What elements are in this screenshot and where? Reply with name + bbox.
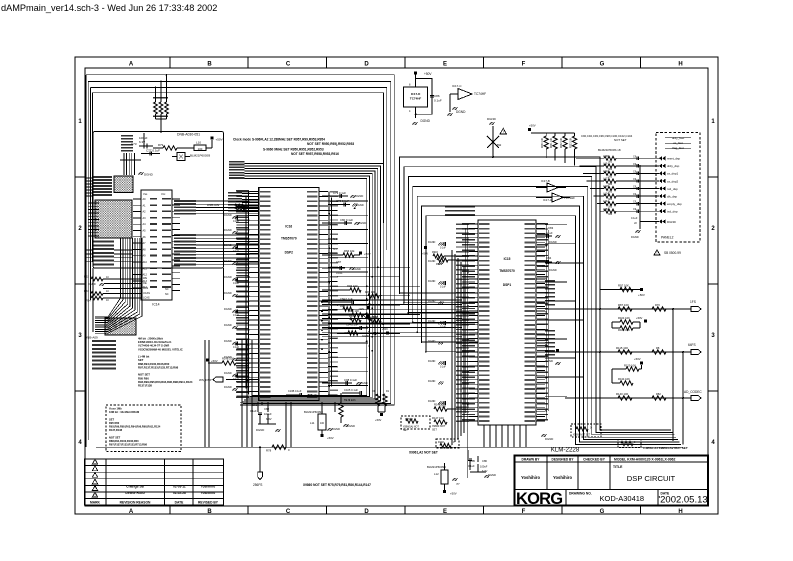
label KLM-222B (551, 447, 580, 454)
svg-text:0: 0 (288, 448, 290, 452)
svg-text:R66 10k: R66 10k (344, 249, 355, 253)
svg-text:L11: L11 (310, 421, 315, 425)
svg-text:C9: C9 (633, 201, 637, 204)
svg-text:DGND: DGND (224, 213, 232, 217)
svg-text:DGND: DGND (456, 110, 466, 114)
svg-text:!: ! (503, 130, 504, 134)
wire 256FS with R78 (96, 445, 683, 487)
svg-text:DGND: DGND (144, 173, 154, 177)
svg-text:DGND: DGND (347, 424, 355, 428)
svg-text:DGND: DGND (224, 339, 232, 343)
DSP1 IC15 TMS57070 (456, 220, 549, 478)
svg-text:C84,0.1uF: C84,0.1uF (346, 323, 359, 327)
svg-text:0.1uF: 0.1uF (542, 264, 549, 268)
svg-text:+50V: +50V (211, 359, 218, 363)
svg-text:A2: A2 (143, 211, 147, 214)
bus IC14 to lower nets (95, 238, 142, 333)
svg-text:1: 1 (711, 119, 715, 125)
svg-text:DGND: DGND (428, 241, 436, 244)
svg-text:X9860 NOT SET R75,R79,R81,R: X9860 NOT SET R75,R79,R81,R86,R144,R147 (303, 483, 371, 487)
note X9961A2 (409, 451, 438, 455)
svg-text:NC: NC (165, 288, 169, 291)
vertical feedback wires right area (600, 290, 683, 445)
svg-text:100: 100 (198, 147, 203, 151)
svg-text:4M bit : 256Kx16bit: 4M bit : 256Kx16bit (138, 337, 163, 341)
svg-text:DRAWING NO.: DRAWING NO. (569, 492, 592, 496)
svg-text:DSP CIRCUIT: DSP CIRCUIT (627, 474, 676, 483)
svg-text:R87 100: R87 100 (618, 303, 629, 307)
svg-text:+50V: +50V (422, 252, 428, 256)
svg-text:3: 3 (711, 333, 715, 339)
svg-text:A3: A3 (143, 217, 147, 220)
svg-text:C77 0.1uF: C77 0.1uF (146, 149, 160, 153)
svg-text:R62: R62 (84, 275, 89, 279)
svg-text:C9: C9 (633, 186, 637, 189)
svg-text:Clock mode S-996FLA2 12.288MH: Clock mode S-996FLA2 12.288MHz SET R957,… (233, 138, 325, 142)
svg-text:NOT SET R950,R95(,R952,R953: NOT SET R950,R95(,R952,R953 (307, 142, 354, 146)
svg-text:H: H (678, 509, 682, 515)
svg-text:+50V: +50V (450, 492, 457, 496)
svg-text:2: 2 (711, 226, 715, 232)
svg-text:R79: R79 (158, 143, 164, 147)
svg-text:DGND: DGND (310, 394, 318, 397)
svg-text:DESIGNED BY: DESIGNED BY (552, 457, 575, 461)
svg-text:DGND: DGND (428, 260, 436, 263)
svg-text:C9: C9 (633, 170, 637, 173)
svg-text:R1: R1 (386, 390, 390, 393)
svg-text:reset_dsp: reset_dsp (667, 157, 681, 161)
svg-text:DGND: DGND (421, 119, 431, 123)
svg-text:TMS57070: TMS57070 (499, 269, 515, 273)
svg-text:R232 10K: R232 10K (561, 137, 563, 148)
svg-text:WE: WE (143, 277, 147, 280)
svg-text:100: 100 (320, 422, 325, 425)
svg-text:R8: R8 (656, 346, 660, 350)
svg-text:BLM21P600S9: BLM21P600S9 (427, 465, 446, 469)
svg-text:DNB-A030-051: DNB-A030-051 (177, 133, 200, 137)
decoupling caps and grounds left of DSP2 (224, 213, 240, 391)
svg-text:0.1uF: 0.1uF (440, 248, 446, 250)
svg-text:R140 100: R140 100 (616, 392, 629, 396)
DSP2 right pin wires (328, 196, 337, 395)
svg-text:A: A (129, 61, 134, 67)
svg-text:DGND: DGND (428, 300, 436, 303)
svg-text:A0: A0 (143, 198, 147, 201)
DSP1 bottom wires and optional resistor (484, 424, 601, 447)
svg-text:TC74HF: TC74HF (564, 196, 575, 200)
svg-text:L12: L12 (434, 472, 439, 476)
svg-text:DGND: DGND (224, 307, 232, 311)
svg-text:DGND: DGND (549, 240, 557, 244)
svg-text:DGND: DGND (224, 323, 232, 327)
svg-text:R148 10K: R148 10K (222, 357, 234, 361)
svg-text:E: E (443, 61, 447, 67)
svg-text:H: H (678, 61, 682, 67)
svg-text:+50V: +50V (358, 307, 364, 311)
module DNB-A030-051 with C73 R79 L10 C77 (93, 132, 224, 333)
svg-text:0: 0 (634, 441, 636, 444)
svg-text:BLM21P600S x8: BLM21P600S x8 (598, 148, 621, 152)
svg-text:DGND: DGND (487, 117, 497, 121)
svg-text:1.3BSL.2J X9961LA2 NOT SET: 1.3BSL.2J X9961LA2 NOT SET (643, 446, 688, 450)
svg-text:+50V: +50V (327, 436, 334, 440)
svg-text:BLM21P600S9: BLM21P600S9 (304, 410, 323, 414)
svg-text:DGND: DGND (488, 473, 496, 477)
svg-text:NC: NC (165, 293, 169, 296)
RC clusters right of DSP2 (322, 191, 379, 385)
svg-text:DGND: DGND (428, 280, 436, 283)
svg-text:IC14: IC14 (152, 303, 159, 307)
svg-text:RAS: RAS (143, 287, 148, 290)
DSP1 right pin net labels (537, 223, 548, 421)
svg-text:D: D (364, 61, 369, 67)
svg-text:DGND: DGND (428, 360, 436, 363)
svg-text:REVISED BY: REVISED BY (198, 500, 219, 504)
svg-text:Vcc: Vcc (161, 192, 166, 196)
svg-text:C10B 0.1uF: C10B 0.1uF (288, 390, 302, 393)
svg-text:B92: B92 (497, 144, 502, 147)
svg-text:A7: A7 (143, 242, 147, 245)
svg-text:DGND: DGND (224, 243, 232, 247)
svg-text:300: 300 (608, 160, 613, 163)
svg-text:1FS: 1FS (690, 300, 696, 304)
svg-text:R88,R94,R100,R106,R60: R88,R94,R100,R106,R60 (138, 362, 170, 366)
svg-text:UCAS: UCAS (143, 292, 150, 295)
svg-text:DGND: DGND (355, 194, 363, 198)
svg-text:TMS57070: TMS57070 (281, 237, 297, 241)
svg-text:DGND: DGND (88, 282, 96, 286)
svg-text:A1: A1 (143, 204, 147, 207)
svg-text:VG3CW256NM-40 MOSEL VITELIC: VG3CW256NM-40 MOSEL VITELIC (138, 347, 183, 351)
svg-text:rxd_dsp: rxd_dsp (667, 187, 678, 191)
svg-text:R115 100: R115 100 (616, 346, 628, 350)
svg-text:B: B (207, 509, 212, 515)
svg-text:300: 300 (608, 213, 613, 216)
connector WS_DSP with R148 (199, 357, 258, 383)
svg-text:IC17-A: IC17-A (543, 198, 552, 202)
decoupling caps and grounds left of DSP1 (428, 241, 446, 409)
resistor array block D with net labels (85, 318, 136, 369)
bus stack D wrapping DSP2 (240, 163, 383, 402)
svg-text:R146 100: R146 100 (434, 403, 446, 407)
svg-text:3: 3 (78, 333, 82, 339)
resistors R9x lower right of DSP2 (322, 309, 389, 338)
svg-text:2: 2 (78, 226, 82, 232)
net stack E with series resistors (207, 192, 258, 212)
svg-text:DGND: DGND (356, 203, 364, 207)
RC clusters right of DSP1 (536, 226, 561, 441)
DSP2 right pin labels (330, 191, 338, 396)
svg-text:C: C (286, 509, 291, 515)
svg-text:'02-03-11: '02-03-11 (172, 485, 186, 489)
svg-text:S-9660 9MHz SET R950,R951,R95: S-9660 9MHz SET R950,R951,R952,R953 (263, 148, 324, 152)
DSP2 IC16 TMS57070 (237, 188, 332, 401)
svg-text:DGND: DGND (631, 235, 639, 239)
net label stacks IC14 to DSP2 (174, 200, 258, 266)
svg-text:0.1uF: 0.1uF (440, 287, 446, 289)
svg-text:R63: R63 (84, 289, 89, 293)
resistors R146 R147 R148 (432, 403, 462, 449)
trimmer X1 with warning mark (487, 117, 507, 158)
svg-text:B: B (207, 61, 212, 67)
title block (KORG / DSP CIRCUIT / KOD-A30418) (514, 455, 708, 508)
svg-text:'2002.05.13: '2002.05.13 (658, 495, 707, 506)
svg-text:txd_dsp: txd_dsp (667, 209, 678, 213)
svg-text:C105 0.1uF: C105 0.1uF (344, 388, 358, 392)
svg-text:0.1uF: 0.1uF (233, 346, 240, 349)
svg-text:10: 10 (106, 290, 109, 293)
svg-text:NOT SET: NOT SET (614, 138, 627, 142)
wires below DSP2 (262, 390, 341, 447)
caps C85 C86 (468, 450, 496, 478)
svg-text:A4: A4 (143, 223, 147, 226)
svg-text:R150 0: R150 0 (405, 418, 414, 421)
svg-text:Yoshihiro: Yoshihiro (553, 475, 572, 480)
svg-text:dAMPmain_ver14.sch-3 - Wed J: dAMPmain_ver14.sch-3 - Wed Jun 26 17:33:… (1, 3, 217, 13)
svg-text:DGND: DGND (545, 437, 553, 441)
svg-text:4: 4 (409, 110, 411, 113)
svg-text:DGND: DGND (549, 268, 557, 272)
svg-text:DGND: DGND (360, 381, 368, 385)
svg-text:SET: SET (432, 429, 437, 432)
svg-text:R97,R137,R133,R133,R713,R98: R97,R137,R133,R133,R713,R98 (138, 365, 179, 369)
svg-text:0.1uF: 0.1uF (468, 464, 475, 468)
svg-text:C86: C86 (482, 459, 487, 463)
svg-text:LCAS: LCAS (143, 297, 150, 300)
memory type note text (138, 337, 193, 388)
svg-text:NOT SET R957,R958,R953,R916: NOT SET R957,R958,R953,R916 (291, 152, 339, 156)
svg-text:+50V: +50V (529, 124, 536, 128)
svg-text:NOT SET: NOT SET (138, 373, 150, 377)
EMI filters L and C to PANEL2 (576, 134, 659, 239)
net label stack C (86, 241, 133, 266)
svg-text:SET: SET (403, 429, 408, 432)
DSP2 right long wires (328, 201, 420, 385)
svg-text:64FS: 64FS (688, 343, 696, 347)
svg-text:R76: R76 (655, 303, 660, 307)
svg-text:C9: C9 (633, 193, 637, 196)
svg-text:8: 8 (409, 84, 411, 87)
svg-text:AD_CODEC: AD_CODEC (684, 390, 702, 394)
svg-text:DGND: DGND (428, 380, 436, 383)
signal line to connector AD_CODEC (565, 390, 702, 401)
svg-text:C: C (286, 61, 291, 67)
resistor array block B (88, 200, 132, 238)
svg-text:DGND: DGND (332, 427, 340, 431)
inductor L12 (427, 463, 460, 496)
svg-text:C9: C9 (633, 178, 637, 181)
svg-text:R93,R99,R95,R63,R94,R96,R98,R9: R93,R99,R95,R63,R94,R96,R98,R911,R124 (109, 425, 161, 429)
DSP2 left pin net labels (236, 190, 249, 398)
svg-text:A: A (129, 509, 134, 515)
safety note SB 0500-99 (654, 250, 681, 255)
svg-text:SET: SET (109, 417, 114, 421)
svg-text:IC16: IC16 (285, 225, 292, 229)
svg-text:0.1uF: 0.1uF (233, 282, 240, 285)
svg-text:4: 4 (78, 440, 82, 446)
svg-text:+50V: +50V (375, 418, 382, 422)
svg-text:KOD-A30418: KOD-A30418 (599, 494, 644, 503)
buffers IC17-A IC17-B (536, 179, 575, 202)
bus stack D to DSP1 nest (229, 161, 244, 179)
svg-text:0.1uF: 0.1uF (440, 327, 446, 329)
svg-text:OE: OE (143, 282, 147, 285)
svg-text:6.3V: 6.3V (266, 417, 272, 421)
svg-text:R230 10K: R230 10K (542, 137, 544, 148)
svg-text:TITLE: TITLE (613, 465, 623, 469)
svg-text:DRAWN BY: DRAWN BY (522, 457, 541, 461)
svg-text:R99 100: R99 100 (365, 290, 376, 294)
signal line to connector 64FS (545, 343, 701, 355)
svg-text:0.1uF: 0.1uF (631, 217, 638, 220)
svg-text:A9: A9 (143, 255, 147, 258)
svg-text:A11: A11 (143, 267, 148, 270)
svg-text:256FS: 256FS (253, 483, 262, 487)
svg-text:E: E (443, 509, 447, 515)
svg-text:C9: C9 (633, 155, 637, 158)
svg-text:cs_dsp2: cs_dsp2 (667, 179, 679, 183)
note over title block (643, 446, 688, 450)
svg-text:0.1uF: 0.1uF (233, 250, 240, 253)
svg-text:N.C: N.C (333, 247, 338, 251)
svg-text:IC15: IC15 (504, 257, 511, 261)
svg-text:DGND: DGND (428, 320, 436, 323)
svg-text:DGND: DGND (224, 291, 232, 295)
verticals to bottom wire (205, 340, 252, 447)
svg-text:'02-02-28: '02-02-28 (172, 491, 186, 495)
svg-text:Yoshihiro: Yoshihiro (201, 491, 216, 495)
svg-text:!: ! (657, 251, 658, 255)
cap C78 at DSP2 (328, 199, 364, 209)
svg-text:R64: R64 (86, 299, 91, 303)
svg-text:C86: C86 (434, 94, 440, 98)
svg-text:0.1uF: 0.1uF (250, 409, 257, 413)
svg-text:DSP1: DSP1 (503, 283, 512, 287)
svg-text:F: F (522, 61, 526, 67)
svg-text:Delete R305: Delete R305 (125, 491, 144, 495)
optional resistor R150 (dashed) (401, 416, 430, 432)
svg-text:Yoshihiro: Yoshihiro (521, 475, 540, 480)
svg-text:100uF: 100uF (480, 465, 488, 469)
svg-text:R97,R137,R133,R133,R713,R98: R97,R137,R133,R133,R713,R98 (109, 443, 147, 447)
top bus bundle (86, 75, 394, 405)
svg-text:IC17-D: IC17-D (411, 92, 421, 96)
svg-text:0.1uF: 0.1uF (233, 220, 240, 223)
svg-text:F: F (522, 509, 526, 515)
svg-text:+50V: +50V (216, 138, 223, 142)
svg-text:R233 10K: R233 10K (571, 137, 573, 148)
svg-text:R137,R138: R137,R138 (138, 384, 152, 388)
signal line to connector 1FS (545, 300, 701, 312)
svg-text:KORG: KORG (516, 490, 562, 508)
svg-text:REVISION REASON: REVISION REASON (120, 500, 151, 504)
caps C81 C82 (250, 402, 281, 432)
svg-text:TC74HF: TC74HF (474, 92, 486, 96)
svg-text:X9960 NOT SET: X9960 NOT SET (573, 435, 591, 437)
buffer IC17-C (447, 84, 486, 116)
svg-text:DNB-A09: DNB-A09 (85, 336, 98, 340)
svg-text:R88,R94,R100,R106,R60: R88,R94,R100,R106,R60 (109, 439, 139, 443)
svg-text:clk_dsp: clk_dsp (667, 194, 678, 198)
svg-text:SB 0500-99: SB 0500-99 (664, 251, 681, 255)
svg-text:R129 10K: R129 10K (624, 364, 636, 368)
svg-text:R95 R60: R95 R60 (109, 421, 120, 425)
svg-text:/77: /77 (456, 482, 460, 486)
svg-text:16M bit : 16x16bit DRAM: 16M bit : 16x16bit DRAM (109, 410, 139, 414)
svg-text:R231 10K: R231 10K (551, 137, 553, 148)
svg-text:DGND: DGND (224, 259, 232, 263)
optional resistor near title block (618, 440, 641, 448)
svg-text:cs_dsp1: cs_dsp1 (667, 172, 679, 176)
svg-text:R147 100: R147 100 (432, 416, 444, 420)
SRAM IC14 with address/data pins (133, 190, 180, 307)
svg-text:+50V: +50V (382, 328, 388, 331)
svg-text:Vss: Vss (143, 192, 148, 196)
pull-up resistors R230-R233 (528, 124, 577, 166)
svg-text:DGND: DGND (224, 371, 232, 375)
svg-text:R95 R60: R95 R60 (138, 376, 149, 380)
resistors to +50V mid (372, 390, 390, 422)
svg-text:A10: A10 (143, 261, 148, 264)
svg-text:MODEL KXM-A060/120 X-9961LX: MODEL KXM-A060/120 X-9961LX-9962 (614, 457, 675, 461)
svg-text:C82: C82 (264, 407, 270, 411)
DSP1 left pin net labels (462, 223, 475, 421)
svg-text:DGND: DGND (362, 335, 369, 338)
bus bundle around DSP1 (400, 157, 682, 444)
svg-text:C9: C9 (633, 163, 637, 166)
svg-text:0.1uF: 0.1uF (336, 271, 343, 275)
svg-text:R904: R904 (436, 263, 442, 266)
svg-text:C87: C87 (336, 260, 342, 264)
svg-text:D: D (364, 509, 369, 515)
bus junctions (321, 292, 427, 353)
svg-text:DGND: DGND (224, 385, 232, 389)
clock driver IC17-D TC74HF (404, 71, 442, 125)
dashed note box (If use 1Mb DRAM) (106, 405, 181, 452)
svg-text:BLM21P600S9: BLM21P600S9 (190, 154, 211, 158)
labels above DSP1 and pull-ups R903 R904 (422, 206, 478, 266)
svg-text:If use 1Mb: If use 1Mb (109, 407, 122, 411)
clock mode note text (233, 138, 354, 157)
svg-text:DGND: DGND (224, 228, 232, 232)
svg-text:R137,R138: R137,R138 (109, 428, 123, 432)
svg-text:DGND: DGND (358, 221, 366, 225)
svg-text:DSP2: DSP2 (285, 251, 294, 255)
svg-text:+50V: +50V (638, 293, 645, 297)
svg-text:drdy_dsp: drdy_dsp (667, 164, 680, 168)
R145 C105 (339, 388, 362, 428)
svg-text:R9c 100: R9c 100 (367, 315, 377, 319)
svg-text:DGND: DGND (256, 428, 264, 432)
pull-up R97 (600, 284, 645, 298)
svg-text:R9b 100: R9b 100 (349, 309, 359, 313)
svg-text:( ) 4M bit: ( ) 4M bit (138, 355, 149, 359)
divider R104 R109 (612, 316, 647, 332)
drawing border frame with grid labels (75, 57, 718, 515)
svg-text:Yoshihiro: Yoshihiro (201, 485, 216, 489)
svg-text:R82: R82 (656, 392, 661, 396)
svg-text:DGND: DGND (428, 340, 436, 343)
svg-text:1: 1 (78, 119, 82, 125)
svg-text:+50V: +50V (636, 316, 643, 320)
svg-text:L10: L10 (196, 141, 201, 145)
svg-text:+50V: +50V (424, 72, 432, 76)
svg-text:G: G (600, 61, 605, 67)
svg-text:CHECKED BY: CHECKED BY (583, 457, 606, 461)
svg-text:R93,R99,R95,R63,R94,R96,R98,R9: R93,R99,R95,R63,R94,R96,R98,R911,R124 (138, 380, 193, 384)
svg-text:NOT SET: NOT SET (109, 435, 121, 439)
svg-text:R145 10K: R145 10K (344, 398, 356, 402)
